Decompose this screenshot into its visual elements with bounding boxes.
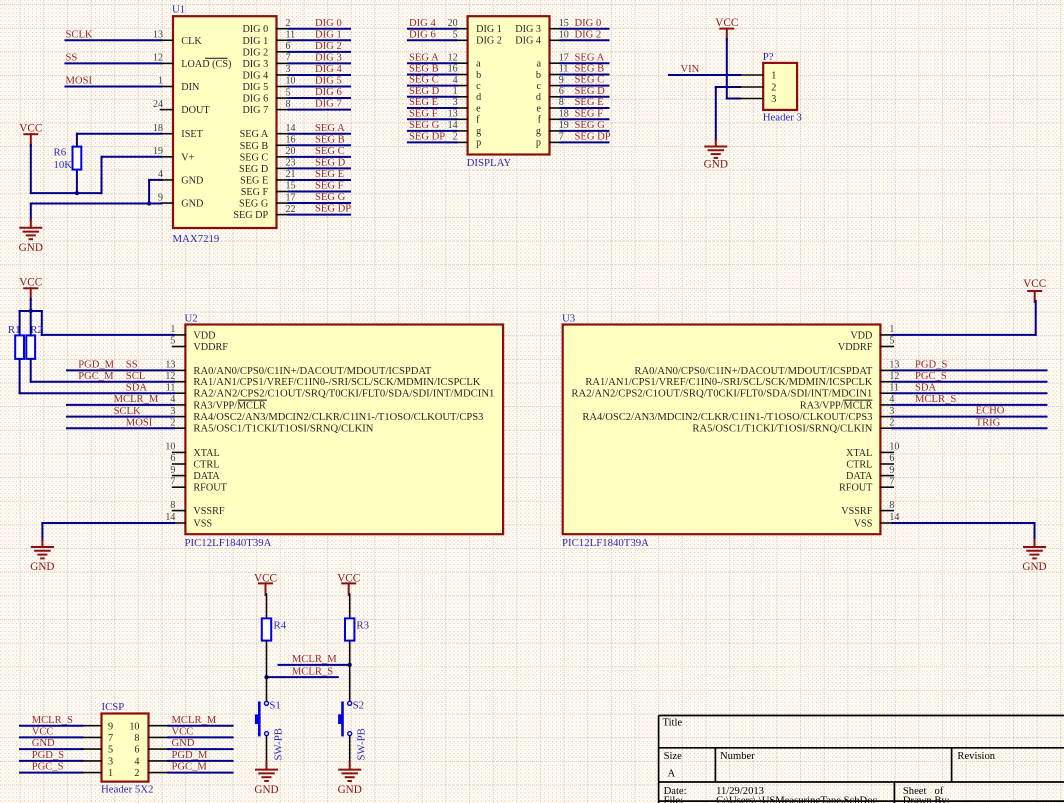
wire net ECHO (U3) — [892, 416, 1046, 418]
switch S2 — [348, 701, 352, 705]
svg-text:SW-PB: SW-PB — [273, 728, 285, 760]
wire VCC stem — [30, 145, 32, 193]
svg-text:10: 10 — [286, 76, 296, 87]
svg-text:7: 7 — [889, 476, 894, 487]
U2 pin 7 RFOUT — [173, 486, 186, 488]
svg-text:17: 17 — [286, 192, 296, 203]
svg-text:DIG 5: DIG 5 — [242, 82, 268, 93]
U3 pin 13 RA0 — [880, 369, 893, 371]
wire net PGC_M (ICSP right) — [168, 772, 232, 774]
U3 pin 7 RFOUT — [880, 486, 893, 488]
U1 pin 5 DIG 6 — [277, 97, 290, 99]
U1 pin 20 SEG C — [277, 156, 290, 158]
svg-text:U2: U2 — [185, 312, 198, 324]
U1 pin 1 DIN — [161, 86, 174, 88]
svg-text:DIG 4: DIG 4 — [409, 18, 436, 29]
svg-text:9: 9 — [889, 465, 894, 476]
svg-text:DIG 0: DIG 0 — [242, 24, 268, 35]
ground GND (U1) — [20, 227, 41, 229]
svg-text:U1: U1 — [172, 4, 185, 16]
svg-text:SEG C: SEG C — [575, 75, 605, 86]
wire net SEG DP — [289, 214, 351, 216]
svg-text:VDD: VDD — [850, 330, 872, 341]
wire net MCLR_M (ICSP right) — [168, 725, 232, 727]
svg-text:V+: V+ — [181, 152, 194, 163]
svg-text:9: 9 — [158, 192, 163, 203]
wire net VIN — [669, 74, 740, 76]
svg-text:3: 3 — [170, 406, 175, 417]
U1 pin 23 SEG D — [277, 167, 290, 169]
svg-text:MCLR_S: MCLR_S — [32, 715, 73, 726]
svg-text:2: 2 — [134, 768, 139, 779]
svg-text:DIG 3: DIG 3 — [315, 52, 342, 63]
wire net DIG 3 — [289, 62, 351, 64]
svg-text:8: 8 — [170, 500, 175, 511]
svg-text:3: 3 — [889, 406, 894, 417]
svg-text:d: d — [476, 92, 481, 103]
svg-text:SEG C: SEG C — [315, 146, 345, 157]
svg-text:SCL: SCL — [126, 371, 145, 382]
svg-text:5: 5 — [889, 336, 894, 347]
svg-text:3: 3 — [771, 94, 776, 105]
svg-text:SDA: SDA — [915, 382, 937, 393]
display pin 12 a — [455, 62, 468, 64]
wire VCC stem to junction — [30, 299, 32, 311]
svg-text:6: 6 — [286, 41, 291, 52]
wire S2 to GND — [349, 736, 351, 762]
svg-text:R1: R1 — [8, 324, 21, 336]
svg-text:RA5/OSC1/T1CKI/T1OSI/SRNQ/CLKI: RA5/OSC1/T1CKI/T1OSI/SRNQ/CLKIN — [692, 424, 873, 435]
svg-text:10: 10 — [559, 30, 569, 41]
svg-text:RFOUT: RFOUT — [839, 483, 873, 494]
U1 pin 16 SEG B — [277, 144, 290, 146]
svg-text:1: 1 — [453, 86, 458, 97]
title block frame — [659, 715, 1064, 717]
svg-text:Drawn By:: Drawn By: — [903, 796, 950, 803]
wire R6 bottom — [76, 170, 78, 194]
svg-text:18: 18 — [559, 109, 569, 120]
wire net SEG B (display left) — [408, 74, 457, 76]
svg-text:6: 6 — [170, 453, 175, 464]
wire S1 to GND — [266, 736, 268, 762]
svg-text:U3: U3 — [562, 312, 575, 324]
wire net SEG A — [289, 133, 351, 135]
U2 pin 5 VDDRF — [173, 346, 186, 348]
svg-text:SEG A: SEG A — [575, 52, 605, 63]
wire net DIG 0 — [289, 28, 351, 30]
svg-text:16: 16 — [448, 64, 458, 75]
wire R2 stem top — [30, 311, 32, 335]
svg-text:R3: R3 — [356, 619, 369, 631]
svg-text:VCC: VCC — [715, 17, 738, 29]
svg-text:DIG 1: DIG 1 — [476, 24, 502, 35]
wire to V+ pin — [101, 157, 103, 193]
svg-text:10: 10 — [129, 721, 139, 732]
svg-text:RA4/OSC2/AN3/MDCIN2/CLKR/C1IN1: RA4/OSC2/AN3/MDCIN2/CLKR/C1IN1-/T1OSO/CL… — [193, 412, 483, 423]
svg-text:4: 4 — [170, 394, 175, 405]
wire net SEG F (display right) — [561, 118, 609, 120]
svg-text:DIG 4: DIG 4 — [515, 36, 541, 47]
svg-text:SEG DP: SEG DP — [233, 210, 268, 221]
svg-text:e: e — [536, 103, 541, 114]
svg-text:DISPLAY: DISPLAY — [467, 157, 512, 169]
U2 pin 12 RA1 — [173, 381, 186, 383]
svg-text:10: 10 — [165, 442, 175, 453]
U1 pin 9 GND — [161, 202, 174, 204]
svg-text:RA2/AN2/CPS2/C1OUT/SRQ/T0CKI/F: RA2/AN2/CPS2/C1OUT/SRQ/T0CKI/FLT0/SDA/SD… — [193, 389, 494, 400]
connector ICSP body — [102, 714, 149, 782]
svg-text:CLK: CLK — [181, 36, 202, 47]
svg-text:SEG G: SEG G — [239, 199, 269, 210]
svg-text:VCC: VCC — [1023, 278, 1046, 290]
svg-text:PGC_S: PGC_S — [915, 371, 947, 382]
wire net DIG 1 — [289, 39, 351, 41]
display pin 20 DIG 1 — [455, 28, 468, 30]
svg-text:S1: S1 — [269, 700, 280, 712]
wire R3 bottom to S2 — [349, 641, 351, 702]
svg-text:PGC_S: PGC_S — [32, 762, 64, 773]
svg-text:RFOUT: RFOUT — [193, 483, 227, 494]
wire net MOSI — [66, 86, 162, 88]
svg-text:CTRL: CTRL — [846, 460, 872, 471]
svg-text:Size: Size — [664, 751, 683, 762]
display pin 5 DIG 2 — [455, 39, 468, 41]
wire net SEG A (display left) — [408, 62, 457, 64]
U2 pin 11 RA2 — [173, 392, 186, 394]
display pin 10 DIG 4 — [550, 39, 563, 41]
display pin 16 b — [455, 74, 468, 76]
svg-text:4: 4 — [158, 169, 163, 180]
U2 pin 4 RA3 — [173, 404, 186, 406]
svg-text:17: 17 — [559, 52, 569, 63]
svg-text:3: 3 — [286, 64, 291, 75]
svg-text:DIG 5: DIG 5 — [315, 76, 342, 87]
svg-text:SEG E: SEG E — [409, 97, 438, 108]
U2 pin 10 XTAL — [173, 451, 186, 453]
wire VSS (U3) to GND — [892, 522, 1034, 524]
svg-text:6: 6 — [134, 745, 139, 756]
resistor R1 — [15, 335, 24, 359]
display pin 18 f — [550, 118, 563, 120]
wire net DIG 7 — [289, 109, 351, 111]
display pin 6 d — [550, 96, 563, 98]
svg-text:6: 6 — [889, 453, 894, 464]
U3 pin 4 RA3 — [880, 404, 893, 406]
svg-text:SW-PB: SW-PB — [356, 728, 368, 760]
wire pin2 to GND — [716, 86, 740, 88]
svg-text:VSSRF: VSSRF — [841, 506, 872, 517]
wire net SEG E (display right) — [561, 107, 609, 109]
svg-text:P?: P? — [763, 51, 774, 63]
wire net SEG F — [289, 191, 351, 193]
svg-text:LOAD (CS): LOAD (CS) — [181, 59, 231, 70]
svg-text:13: 13 — [889, 360, 899, 371]
U3 pin 12 RA1 — [880, 381, 893, 383]
wire VCC to R6/V+ horizontal — [31, 192, 102, 194]
svg-text:7: 7 — [170, 476, 175, 487]
svg-text:8: 8 — [559, 97, 564, 108]
svg-text:15: 15 — [559, 18, 569, 29]
display body — [468, 16, 550, 154]
svg-text:PIC12LF1840T39A: PIC12LF1840T39A — [562, 537, 649, 549]
wire R6 top to ISET — [76, 134, 78, 147]
svg-text:14: 14 — [889, 512, 899, 523]
U3 pin 9 DATA — [880, 475, 893, 477]
svg-text:GND: GND — [181, 175, 203, 186]
junction at R6 bottom — [75, 191, 79, 195]
svg-text:DIG 1: DIG 1 — [242, 36, 268, 47]
svg-text:8: 8 — [134, 733, 139, 744]
wire net SCLK — [66, 39, 162, 41]
svg-text:8: 8 — [286, 99, 291, 110]
svg-text:SEG C: SEG C — [409, 75, 439, 86]
svg-text:ICSP: ICSP — [102, 701, 125, 713]
svg-text:MOSI: MOSI — [126, 417, 153, 428]
svg-text:SEG G: SEG G — [575, 120, 606, 131]
U3 pin 8 VSSRF — [880, 510, 893, 512]
svg-text:XTAL: XTAL — [846, 448, 872, 459]
svg-text:SEG F: SEG F — [241, 187, 269, 198]
wire net SEG G (display right) — [561, 130, 609, 132]
header3 pin 3 — [740, 98, 763, 100]
overline MCLR (U2 RA3) — [238, 399, 267, 401]
svg-text:DIG 7: DIG 7 — [315, 99, 342, 110]
svg-text:ISET: ISET — [181, 129, 203, 140]
svg-text:19: 19 — [153, 146, 163, 157]
ICSP pin 7 — [81, 736, 101, 738]
svg-text:SCLK: SCLK — [114, 406, 141, 417]
wire net SEG G (display left) — [408, 130, 457, 132]
svg-text:SCLK: SCLK — [66, 29, 93, 40]
svg-text:SEG B: SEG B — [409, 64, 439, 75]
U2 pin 3 RA4 — [173, 416, 186, 418]
display pin 17 a — [550, 62, 563, 64]
svg-text:12: 12 — [889, 371, 899, 382]
svg-text:GND: GND — [32, 738, 55, 749]
svg-text:14: 14 — [165, 512, 175, 523]
U2 pin 2 RA5 — [173, 427, 186, 429]
wire VDD (U3) — [892, 334, 1035, 336]
U3 pin 10 XTAL — [880, 451, 893, 453]
wire net MCLR_M — [279, 664, 350, 666]
wire GND4 down — [149, 179, 161, 181]
wire net SEG E — [289, 179, 351, 181]
display pin 2 p — [455, 141, 468, 143]
svg-text:SEG B: SEG B — [240, 141, 269, 152]
display pin 9 c — [550, 85, 563, 87]
overline MCLR (U3 RA3) — [843, 399, 872, 401]
svg-text:DIG 3: DIG 3 — [515, 24, 541, 35]
U1 pin 7 DIG 3 — [277, 62, 290, 64]
svg-text:5: 5 — [453, 30, 458, 41]
svg-text:DIG 4: DIG 4 — [242, 70, 268, 81]
wire net VCC (ICSP left) — [20, 736, 83, 738]
svg-text:SEG B: SEG B — [575, 64, 605, 75]
svg-text:GND: GND — [704, 159, 728, 171]
header3 pin 1 — [740, 74, 763, 76]
U3 pin 1 VDD — [880, 334, 893, 336]
svg-text:1: 1 — [158, 76, 163, 87]
svg-text:12: 12 — [448, 52, 458, 63]
ICSP pin 1 — [81, 772, 101, 774]
svg-text:d: d — [536, 92, 541, 103]
display pin 15 DIG 3 — [550, 28, 563, 30]
wire net DIG 4 (display left) — [408, 28, 457, 30]
wire net PGC_S (ICSP left) — [20, 772, 83, 774]
svg-text:1: 1 — [771, 71, 776, 82]
ground GND (U3) — [1024, 546, 1045, 548]
svg-text:PGD_M: PGD_M — [172, 750, 208, 761]
svg-text:MCLR_S: MCLR_S — [292, 666, 333, 677]
svg-text:15: 15 — [286, 181, 296, 192]
wire net DIG 5 — [289, 86, 351, 88]
svg-text:VIN: VIN — [681, 64, 700, 75]
wire net PGD_S (U3) — [892, 369, 1046, 371]
svg-text:SEG C: SEG C — [240, 152, 269, 163]
svg-text:SEG F: SEG F — [575, 108, 604, 119]
display pin 13 f — [455, 118, 468, 120]
display pin 1 d — [455, 96, 468, 98]
U1 pin 2 DIG 0 — [277, 28, 290, 30]
svg-text:SEG F: SEG F — [409, 108, 438, 119]
svg-text:VCC: VCC — [19, 123, 42, 135]
svg-text:4: 4 — [134, 757, 139, 768]
svg-text:24: 24 — [153, 99, 163, 110]
U2 pin 9 DATA — [173, 475, 186, 477]
wire net DIG 6 (display left) — [408, 39, 457, 41]
wire net DIG 2 (display right) — [561, 39, 609, 41]
svg-text:DATA: DATA — [193, 471, 220, 482]
svg-text:Title: Title — [663, 718, 683, 729]
svg-text:10: 10 — [889, 442, 899, 453]
wire net VCC (ICSP right) — [168, 736, 232, 738]
svg-text:13: 13 — [165, 360, 175, 371]
svg-text:R4: R4 — [274, 619, 287, 631]
svg-text:12: 12 — [153, 53, 163, 64]
svg-text:3: 3 — [453, 97, 458, 108]
wire VCC to R4 — [266, 594, 268, 618]
wire net SS — [66, 62, 162, 64]
svg-text:11: 11 — [889, 382, 899, 393]
svg-text:g: g — [536, 126, 541, 137]
U1 pin 12 LOAD (CS) — [161, 62, 174, 64]
U3 pin 11 RA2 — [880, 392, 893, 394]
svg-text:RA1/AN1/CPS1/VREF/C1IN0-/SRI/S: RA1/AN1/CPS1/VREF/C1IN0-/SRI/SCL/SCK/MDM… — [585, 377, 873, 388]
svg-text:1: 1 — [108, 768, 113, 779]
svg-text:SEG G: SEG G — [315, 192, 346, 203]
svg-text:2: 2 — [453, 132, 458, 143]
svg-text:p: p — [536, 138, 541, 149]
display pin 14 g — [455, 130, 468, 132]
svg-text:2: 2 — [771, 83, 776, 94]
svg-text:GND: GND — [172, 738, 195, 749]
U3 pin 6 CTRL — [880, 463, 893, 465]
U1 pin 17 SEG G — [277, 202, 290, 204]
svg-text:13: 13 — [448, 109, 458, 120]
svg-text:VSSRF: VSSRF — [193, 506, 224, 517]
svg-text:9: 9 — [559, 75, 564, 86]
op-amp U1 body — [173, 16, 277, 228]
svg-text:4: 4 — [889, 394, 894, 405]
svg-text:DIG 2: DIG 2 — [242, 47, 268, 58]
svg-text:SEG E: SEG E — [575, 97, 604, 108]
svg-text:GND: GND — [338, 784, 362, 796]
svg-text:16: 16 — [286, 134, 296, 145]
svg-text:a: a — [476, 59, 481, 70]
svg-text:CTRL: CTRL — [193, 460, 219, 471]
svg-text:PGD_M: PGD_M — [78, 360, 114, 371]
wire to GND symbol — [30, 204, 32, 221]
svg-text:g: g — [476, 126, 481, 137]
svg-text:SEG G: SEG G — [409, 120, 440, 131]
wire R2 bottom to RA1 row — [30, 359, 32, 382]
svg-text:R6: R6 — [54, 147, 67, 159]
svg-text:SEG DP: SEG DP — [409, 132, 445, 143]
wire VSS (U2) to GND — [42, 522, 174, 524]
svg-text:VSS: VSS — [193, 519, 212, 530]
ICSP pin 6 — [149, 748, 170, 750]
svg-text:9: 9 — [108, 721, 113, 732]
svg-text:MAX7219: MAX7219 — [173, 233, 220, 245]
svg-text:PGD_S: PGD_S — [915, 360, 947, 371]
wire VCC stem (U3) — [1035, 301, 1037, 335]
U2 pin 13 RA0 — [173, 369, 186, 371]
overline CS of LOAD pin — [205, 57, 228, 59]
wire net SEG D (display right) — [561, 96, 609, 98]
svg-text:VCC: VCC — [32, 727, 54, 738]
ground GND (S1) — [256, 769, 277, 771]
svg-text:c: c — [536, 81, 541, 92]
U1 pin 10 DIG 5 — [277, 86, 290, 88]
resistor R6 — [73, 147, 82, 170]
svg-text:DIG 7: DIG 7 — [242, 105, 268, 116]
U1 pin 13 CLK — [161, 39, 174, 41]
wire net SEG B — [289, 144, 351, 146]
svg-text:11: 11 — [166, 382, 176, 393]
wire net SEG C — [289, 156, 351, 158]
svg-text:7: 7 — [286, 53, 291, 64]
svg-text:Header 3: Header 3 — [763, 112, 802, 124]
header3 pin 2 — [740, 86, 763, 88]
svg-text:DIG 1: DIG 1 — [315, 29, 342, 40]
svg-text:18: 18 — [153, 123, 163, 134]
svg-text:10K: 10K — [54, 159, 73, 171]
svg-text:RA0/AN0/CPS0/C1IN+/DACOUT/MDOU: RA0/AN0/CPS0/C1IN+/DACOUT/MDOUT/ICSPDAT — [193, 366, 432, 377]
ground GND (header3) — [705, 146, 726, 148]
svg-text:SS: SS — [66, 52, 78, 63]
svg-text:SEG DP: SEG DP — [315, 204, 351, 215]
svg-text:VDDRF: VDDRF — [193, 342, 228, 353]
svg-text:SDA: SDA — [126, 382, 148, 393]
svg-text:5: 5 — [170, 336, 175, 347]
svg-text:DIG 2: DIG 2 — [575, 29, 602, 40]
svg-text:DATA: DATA — [846, 471, 873, 482]
resistor R2 — [26, 335, 35, 359]
svg-text:PIC12LF1840T39A: PIC12LF1840T39A — [185, 537, 272, 549]
svg-text:DIG 0: DIG 0 — [575, 18, 602, 29]
svg-text:Header 5X2: Header 5X2 — [101, 784, 153, 796]
svg-text:SEG DP: SEG DP — [575, 132, 611, 143]
wire VCC to R3 — [349, 594, 351, 618]
wire net DIG 0 (display right) — [561, 28, 609, 30]
wire net SDA (U3) — [892, 392, 1046, 394]
svg-text:2: 2 — [170, 417, 175, 428]
svg-text:RA1/AN1/CPS1/VREF/C1IN0-/SRI/S: RA1/AN1/CPS1/VREF/C1IN0-/SRI/SCL/SCK/MDM… — [193, 377, 481, 388]
svg-text:MCLR_M: MCLR_M — [114, 394, 159, 405]
svg-text:7: 7 — [108, 733, 113, 744]
svg-text:C:\Users\ \USMeasuringTape.Sch: C:\Users\ \USMeasuringTape.SchDoc — [716, 796, 877, 803]
svg-text:SEG A: SEG A — [240, 129, 269, 140]
